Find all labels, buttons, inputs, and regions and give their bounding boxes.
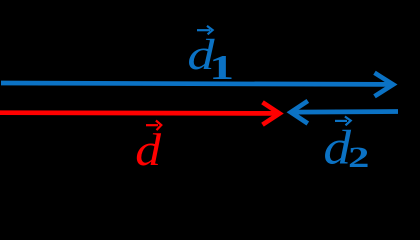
vector d: red arrow pointing right [0, 102, 280, 124]
vector d2: bottom blue arrow pointing left [291, 101, 398, 124]
d2 arrowhead [291, 101, 308, 124]
label d (red): overbar arrow [146, 121, 161, 131]
wire: d1 shaft [1, 83, 390, 84]
d arrowhead [263, 102, 280, 124]
d1 arrowhead [375, 73, 394, 97]
svg-text:2: 2 [348, 140, 369, 173]
svg-text:1: 1 [209, 49, 234, 87]
vector d1: top blue arrow pointing right [1, 73, 393, 97]
wire: d shaft [0, 110, 276, 115]
svg-text:d: d [135, 124, 161, 176]
label d1: overbar arrow [197, 26, 213, 34]
wire: d2 shaft [294, 109, 398, 114]
label d2: overbar arrow [335, 117, 351, 126]
